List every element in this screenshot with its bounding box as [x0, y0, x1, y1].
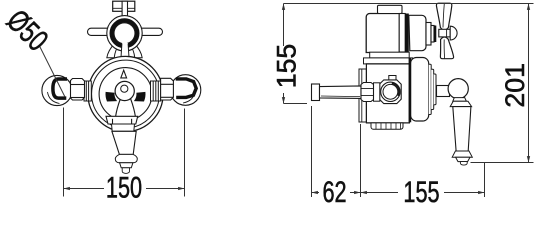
svg-text:155: 155	[403, 175, 439, 204]
svg-text:201: 201	[500, 63, 530, 108]
svg-text:150: 150	[106, 170, 142, 204]
svg-text:Ø50: Ø50	[0, 2, 55, 57]
svg-text:155: 155	[272, 44, 302, 89]
svg-text:62: 62	[322, 175, 346, 204]
